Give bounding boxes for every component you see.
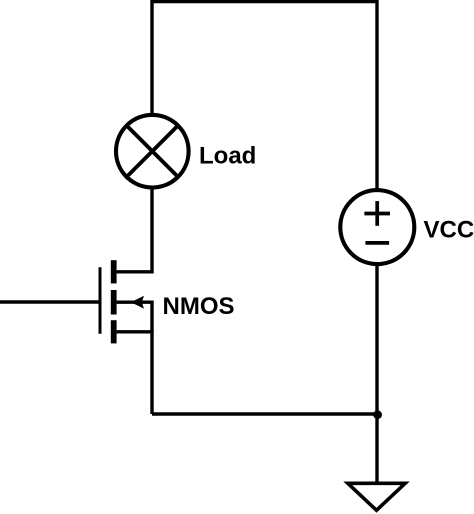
svg-text:Load: Load [199, 142, 256, 169]
svg-text:NMOS: NMOS [163, 293, 235, 320]
svg-text:VCC: VCC [424, 217, 474, 244]
